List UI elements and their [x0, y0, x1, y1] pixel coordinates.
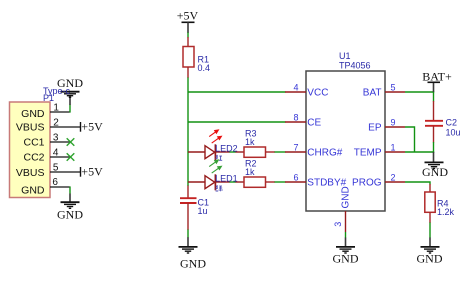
svg-text:4: 4 [293, 83, 298, 93]
svg-text:GND: GND [21, 108, 45, 120]
svg-text:GND: GND [333, 251, 359, 265]
svg-text:10u: 10u [446, 128, 461, 138]
svg-text:VBUS: VBUS [16, 122, 45, 134]
svg-text:6: 6 [293, 173, 298, 183]
svg-text:P1: P1 [43, 93, 54, 103]
svg-text:7: 7 [293, 143, 298, 153]
svg-text:PROG: PROG [352, 178, 382, 189]
svg-text:1k: 1k [245, 137, 255, 147]
svg-text:GND: GND [341, 186, 352, 208]
svg-text:+5V: +5V [81, 119, 103, 133]
svg-text:GND: GND [417, 251, 443, 265]
svg-text:GND: GND [57, 208, 83, 222]
svg-text:TP4056: TP4056 [339, 61, 371, 71]
svg-text:GND: GND [21, 184, 45, 196]
svg-text:CC1: CC1 [23, 136, 44, 148]
svg-text:GND: GND [180, 256, 206, 270]
svg-text:8: 8 [293, 113, 298, 123]
svg-text:0.4: 0.4 [198, 63, 211, 73]
svg-text:GND: GND [422, 165, 448, 179]
svg-text:5: 5 [391, 83, 396, 93]
svg-text:VBUS: VBUS [16, 167, 45, 179]
svg-text:2: 2 [391, 173, 396, 183]
svg-text:3: 3 [333, 222, 343, 227]
svg-text:C2: C2 [446, 118, 458, 128]
svg-text:BAT+: BAT+ [422, 70, 452, 84]
svg-text:1k: 1k [245, 167, 255, 177]
svg-text:6: 6 [52, 177, 58, 188]
svg-text:BAT: BAT [363, 88, 382, 99]
svg-text:LED2: LED2 [215, 144, 238, 154]
svg-text:1: 1 [391, 143, 396, 153]
svg-text:LED1: LED1 [215, 174, 238, 184]
svg-text:+5V: +5V [81, 164, 103, 178]
svg-text:VCC: VCC [307, 88, 328, 99]
svg-text:EP: EP [368, 123, 382, 134]
svg-text:1u: 1u [198, 206, 208, 216]
svg-text:TEMP: TEMP [354, 148, 382, 159]
svg-text:U1: U1 [339, 51, 351, 61]
svg-text:+5V: +5V [177, 9, 199, 23]
svg-text:CHRG#: CHRG# [307, 148, 342, 159]
svg-text:CC2: CC2 [23, 151, 44, 163]
svg-text:CE: CE [307, 118, 321, 129]
svg-text:1.2k: 1.2k [437, 207, 455, 217]
svg-text:9: 9 [391, 118, 396, 128]
